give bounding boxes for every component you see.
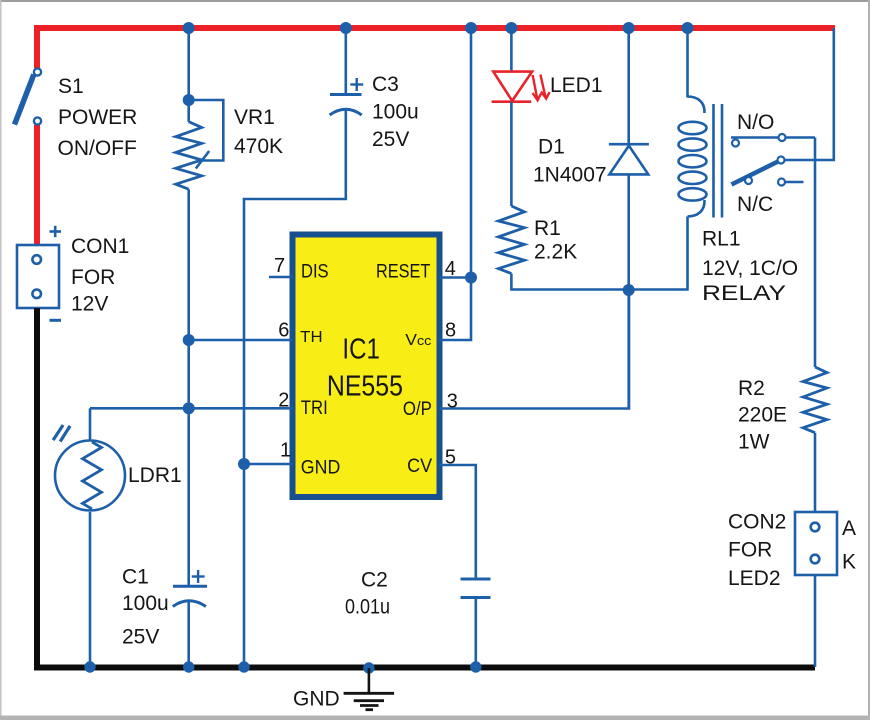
wire VR1 bottom to TH/TRI/C1 vertical xyxy=(187,189,190,586)
VR1 wiper slash xyxy=(196,151,209,169)
diode D1 cathode bar xyxy=(609,143,649,146)
svg-text:2: 2 xyxy=(278,390,289,412)
ground node dot on rail xyxy=(363,662,374,673)
relay RL1 coil bottom hook xyxy=(688,200,705,217)
wire relay common from rail xyxy=(785,28,834,160)
relay common pole circle xyxy=(778,157,785,164)
IC1 NE555 body xyxy=(293,235,440,498)
pin 5 wire (CV) to C2 xyxy=(440,465,476,579)
ground symbol bars xyxy=(344,693,395,709)
capacitor C1 positive plate xyxy=(173,585,207,588)
svg-text:25V: 25V xyxy=(122,625,159,648)
node dot D1 rail xyxy=(623,22,635,34)
node dot VR1 top rail xyxy=(183,22,195,34)
svg-text:VR1: VR1 xyxy=(234,106,275,129)
svg-text:N/O: N/O xyxy=(737,111,774,134)
capacitor C1 plus sign xyxy=(192,570,205,583)
wire N/O to R2 vertical xyxy=(814,138,817,368)
wire VR1 branch vertical from rail xyxy=(187,28,190,122)
relay N/O contact circle xyxy=(779,134,786,141)
wire red switch to CON1 xyxy=(34,125,40,245)
svg-text:GND: GND xyxy=(301,457,341,478)
svg-text:12V, 1C/O: 12V, 1C/O xyxy=(702,257,798,280)
svg-text:N/C: N/C xyxy=(737,193,773,216)
ground stub wire xyxy=(368,668,371,693)
LED1 cathode bar xyxy=(492,100,532,103)
wire C3 to ground vertical xyxy=(244,109,346,667)
svg-text:LED1: LED1 xyxy=(550,74,603,97)
node dot C2 bottom rail xyxy=(470,661,481,672)
svg-text:C2: C2 xyxy=(361,569,388,592)
CON1 pin circle top xyxy=(32,255,41,264)
svg-text:1N4007: 1N4007 xyxy=(533,164,607,187)
relay arm pivot circle xyxy=(745,177,752,184)
switch S1 lever xyxy=(15,75,34,125)
CON1 pin circle bottom xyxy=(32,290,41,299)
node dot C1 bottom rail xyxy=(183,661,194,672)
svg-text:TH: TH xyxy=(300,329,322,346)
switch S1 bottom contact circle xyxy=(34,117,41,124)
LDR1 zigzag xyxy=(83,442,102,509)
diode D1 triangle xyxy=(609,146,648,175)
svg-text:R2: R2 xyxy=(738,377,765,400)
relay N/C contact circle xyxy=(778,179,785,186)
LDR1 bottom wire xyxy=(89,512,92,667)
relay RL1 coil loop 3 xyxy=(679,155,707,167)
svg-text:A: A xyxy=(842,517,856,540)
resistor R2 zigzag xyxy=(803,367,827,433)
svg-text:25V: 25V xyxy=(372,128,409,151)
svg-text:NE555: NE555 xyxy=(327,371,403,403)
svg-text:1W: 1W xyxy=(738,430,770,453)
resistor R1 zigzag xyxy=(498,206,524,274)
svg-text:ON/OFF: ON/OFF xyxy=(58,137,137,160)
relay RL1 coil loop 2 xyxy=(679,138,707,150)
relay N/O contact line xyxy=(731,136,815,139)
node dot C3 gnd wire bottom rail xyxy=(238,661,249,672)
relay N/O terminal circle xyxy=(732,140,739,147)
svg-text:D1: D1 xyxy=(538,135,565,158)
svg-text:TRI: TRI xyxy=(301,398,328,419)
svg-text:POWER: POWER xyxy=(58,106,137,129)
pin 6 stub wire (TH) xyxy=(189,339,293,342)
svg-text:FOR: FOR xyxy=(728,539,772,562)
svg-text:4: 4 xyxy=(445,258,456,280)
LDR1 top wire xyxy=(89,408,92,440)
relay core line 1 xyxy=(712,104,715,218)
svg-text:5: 5 xyxy=(445,447,456,469)
pin 3 wire (O/P) to output node xyxy=(440,290,630,409)
node dot VR1 wiper junction xyxy=(183,94,195,106)
node dot LDR bottom rail xyxy=(84,661,95,672)
wire C2 to bottom rail xyxy=(474,598,477,668)
wire C3 branch vertical from rail xyxy=(344,28,347,95)
relay N/C stub line xyxy=(786,181,804,184)
wire D1 anode to output node xyxy=(627,174,630,408)
svg-text:CON2: CON2 xyxy=(728,510,786,533)
wire relay coil bottom to output node xyxy=(629,217,688,290)
connector CON2 box xyxy=(795,512,837,575)
capacitor C3 positive plate xyxy=(330,93,362,96)
connector CON1 box xyxy=(17,245,59,308)
wire R2 to CON2 xyxy=(814,433,817,512)
svg-text:2.2K: 2.2K xyxy=(534,241,577,264)
wire Vcc/RESET vertical to rail xyxy=(440,28,472,340)
svg-text:1: 1 xyxy=(280,440,291,462)
svg-text:220E: 220E xyxy=(738,404,787,427)
LED1 triangle xyxy=(493,72,532,101)
pin 2 stub wire (TRI) xyxy=(90,407,293,410)
pin 1 stub wire (GND) xyxy=(244,463,293,466)
potentiometer VR1 zigzag xyxy=(176,122,202,190)
wire relay coil branch from rail xyxy=(686,28,689,98)
node dot RESET junction xyxy=(465,272,477,284)
wire D1 branch from rail xyxy=(627,28,630,144)
frame right edge xyxy=(868,0,870,720)
wire +12V red top rail xyxy=(37,28,835,68)
CON1 plus sign xyxy=(50,226,62,237)
svg-text:12V: 12V xyxy=(71,293,108,316)
svg-text:O/P: O/P xyxy=(403,399,432,420)
svg-text:S1: S1 xyxy=(58,75,84,98)
LED1 emission arrow 1 xyxy=(533,75,541,100)
capacitor C1 curved plate xyxy=(173,601,206,607)
svg-text:C1: C1 xyxy=(122,565,149,588)
svg-text:DIS: DIS xyxy=(301,261,329,282)
CON2 pin circle top xyxy=(811,523,820,532)
svg-text:0.01u: 0.01u xyxy=(345,595,390,618)
node dot GND pin junction xyxy=(238,458,250,470)
frame top edge xyxy=(0,0,870,2)
frame bottom edge xyxy=(0,716,870,720)
capacitor C3 plus sign xyxy=(350,78,363,91)
svg-text:100u: 100u xyxy=(372,101,419,124)
svg-text:C3: C3 xyxy=(372,73,399,96)
svg-text:7: 7 xyxy=(274,255,285,277)
svg-text:100u: 100u xyxy=(122,592,169,615)
wire LED1 cathode to R1 xyxy=(510,102,513,206)
node dot Vcc rail xyxy=(465,22,477,34)
svg-text:RL1: RL1 xyxy=(702,227,741,250)
relay RL1 coil loop 5 xyxy=(679,188,707,200)
svg-text:8: 8 xyxy=(445,320,456,342)
LED1 emission arrow 2 xyxy=(540,75,549,99)
wire black negative lead from CON1 xyxy=(37,308,815,668)
frame left edge xyxy=(0,0,2,720)
svg-text:GND: GND xyxy=(293,687,340,710)
svg-text:RELAY: RELAY xyxy=(702,282,786,305)
capacitor C2 bottom plate xyxy=(461,596,491,599)
svg-text:IC1: IC1 xyxy=(342,334,380,366)
wire R1 bottom to output node xyxy=(511,274,629,290)
capacitor C3 curved plate xyxy=(330,109,362,115)
node dot relay rail xyxy=(682,22,694,34)
CON2 pin circle bottom xyxy=(811,555,820,564)
wire LED1 branch from rail xyxy=(510,28,513,72)
svg-text:Vcc: Vcc xyxy=(405,332,432,349)
svg-text:RESET: RESET xyxy=(376,261,431,282)
LDR1 light strokes xyxy=(53,425,70,442)
svg-text:6: 6 xyxy=(278,320,289,342)
node dot C3 rail xyxy=(340,22,352,34)
svg-text:R1: R1 xyxy=(534,217,561,240)
node dot TRI junction xyxy=(183,402,195,414)
node dot LED1 rail xyxy=(505,22,517,34)
svg-text:470K: 470K xyxy=(234,135,283,158)
pin 4 stub wire (RESET) xyxy=(440,276,472,279)
relay core line 2 xyxy=(721,104,724,218)
relay pole arm xyxy=(732,162,779,185)
svg-text:LDR1: LDR1 xyxy=(128,464,182,487)
capacitor C2 top plate xyxy=(461,578,491,581)
switch S1 top contact circle xyxy=(34,68,41,75)
relay RL1 coil loop 4 xyxy=(679,172,707,184)
svg-text:3: 3 xyxy=(447,391,458,413)
relay RL1 coil top hook xyxy=(688,97,705,114)
svg-text:LED2: LED2 xyxy=(728,567,781,590)
LDR1 circle xyxy=(55,441,125,511)
pin 7 stub (DIS) xyxy=(269,276,293,279)
wire CON2 to bottom rail xyxy=(814,575,817,667)
svg-text:CV: CV xyxy=(407,456,432,477)
CON1 minus sign xyxy=(50,319,62,322)
node dot output junction xyxy=(623,284,635,296)
svg-text:FOR: FOR xyxy=(71,266,115,289)
svg-text:CON1: CON1 xyxy=(71,235,129,258)
wire C1 to bottom rail xyxy=(187,601,190,668)
VR1 wiper loop wire xyxy=(194,100,223,161)
svg-text:K: K xyxy=(842,550,856,573)
relay RL1 coil loop 1 xyxy=(679,122,707,134)
node dot TH junction xyxy=(183,334,195,346)
